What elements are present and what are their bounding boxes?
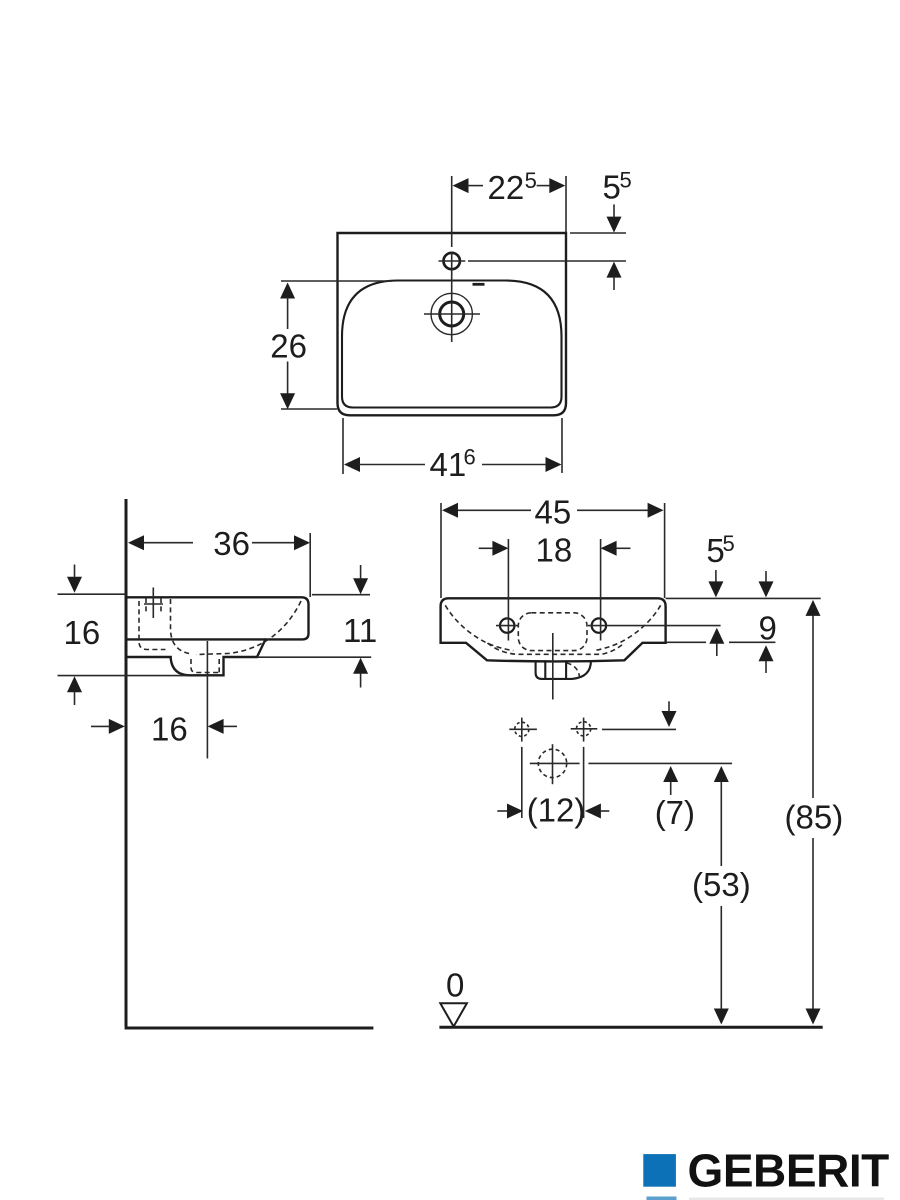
svg-text:(53): (53) xyxy=(692,866,751,903)
svg-text:5: 5 xyxy=(603,169,621,206)
svg-text:5: 5 xyxy=(620,168,632,193)
svg-text:GEBERIT: GEBERIT xyxy=(688,1145,890,1197)
svg-text:11: 11 xyxy=(343,612,377,649)
svg-text:26: 26 xyxy=(270,327,307,364)
svg-text:(12): (12) xyxy=(527,792,586,829)
svg-text:36: 36 xyxy=(213,525,250,562)
svg-text:18: 18 xyxy=(536,532,573,569)
svg-text:6: 6 xyxy=(464,445,476,470)
svg-text:22: 22 xyxy=(488,169,525,206)
svg-text:16: 16 xyxy=(151,711,188,748)
svg-text:(7): (7) xyxy=(655,794,695,831)
svg-text:5: 5 xyxy=(525,168,537,193)
svg-text:(85): (85) xyxy=(785,798,844,835)
svg-text:5: 5 xyxy=(723,531,735,556)
svg-text:45: 45 xyxy=(535,494,572,531)
svg-text:9: 9 xyxy=(759,610,777,647)
svg-text:0: 0 xyxy=(446,967,464,1004)
svg-text:41: 41 xyxy=(430,446,467,483)
svg-text:16: 16 xyxy=(64,614,101,651)
